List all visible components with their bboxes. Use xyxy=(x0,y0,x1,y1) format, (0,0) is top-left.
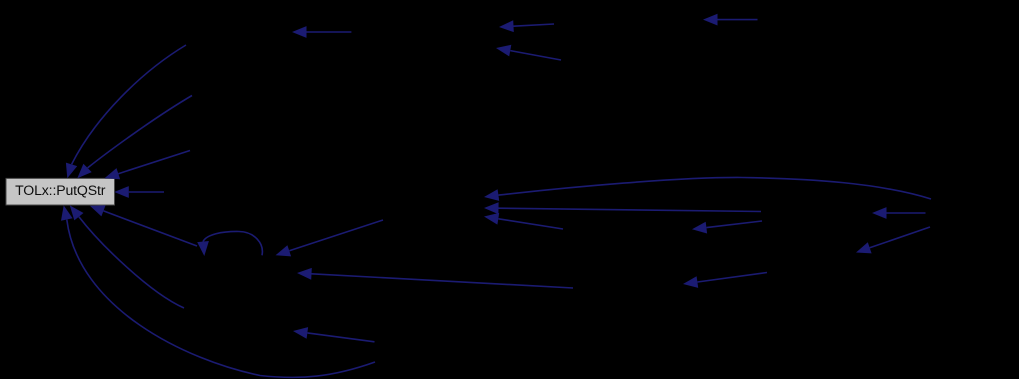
arrowhead e17 far right to node low xyxy=(856,242,872,253)
arrowhead e12 far right node arc to mid node xyxy=(484,189,499,201)
arrowhead e13 node to mid node xyxy=(484,202,499,214)
arrowhead e20 top arrow second xyxy=(499,20,514,32)
arrowhead e7 far node grand sweep to PutQStr xyxy=(61,205,73,220)
edge e3 third node to PutQStr corner xyxy=(118,151,190,174)
edge e1 top row node to PutQStr (outer curve) xyxy=(72,45,186,164)
edge e9 node to loop node xyxy=(289,220,383,251)
edge e22 top right arrow xyxy=(718,19,758,21)
arrowhead e14 node to mid node low xyxy=(484,213,499,225)
arrowhead e8 self loop xyxy=(197,241,209,256)
edge e5 loop node to PutQStr bottom xyxy=(104,211,198,246)
edge e13 node to mid node xyxy=(499,208,762,211)
edge e11 node to lower node xyxy=(307,333,374,342)
arrowhead e1 top row node to PutQStr (outer curve) xyxy=(66,163,77,179)
edge e4 adjacent node to PutQStr right xyxy=(129,191,164,193)
node TOLx::PutQStr box xyxy=(6,178,115,205)
arrowhead e9 node to loop node xyxy=(276,245,292,256)
edge e8 self loop xyxy=(203,231,262,255)
arrowhead e5 loop node to PutQStr bottom xyxy=(90,205,106,216)
arrowhead e18 node to node low xyxy=(683,276,698,288)
arrowhead e15 node to node xyxy=(692,222,707,234)
edge e7 far node grand sweep to PutQStr xyxy=(67,220,375,378)
arrowhead e16 far right to node xyxy=(872,207,887,219)
edge e17 far right to node low xyxy=(870,227,930,248)
arrowhead e3 third node to PutQStr corner xyxy=(105,168,121,179)
svg-text:TOLx::PutQStr: TOLx::PutQStr xyxy=(15,182,106,198)
edge e19 top arrow xyxy=(307,31,352,33)
arrowhead e21 arrow second row xyxy=(496,45,511,57)
edge e12 far right node arc to mid node xyxy=(498,177,931,199)
arrowhead e6 lower node to PutQStr bottom xyxy=(70,205,84,220)
arrowhead e22 top right arrow xyxy=(703,14,718,26)
edge e14 node to mid node low xyxy=(498,219,563,229)
arrowhead e10 node to loop node right xyxy=(297,268,312,280)
edge e20 top arrow second xyxy=(514,24,555,26)
edge e6 lower node to PutQStr bottom xyxy=(79,217,184,308)
edge e16 far right to node xyxy=(887,212,926,214)
edge e15 node to node xyxy=(706,221,762,228)
arrowhead e2 second row node to PutQStr xyxy=(77,164,91,178)
edge e21 arrow second row xyxy=(510,51,561,60)
arrowhead e11 node to lower node xyxy=(293,327,308,339)
arrowhead e19 top arrow xyxy=(292,26,307,38)
edge e18 node to node low xyxy=(697,273,767,283)
edge e2 second row node to PutQStr xyxy=(88,96,192,168)
arrowhead e4 adjacent node to PutQStr right xyxy=(114,186,129,198)
edge e10 node to loop node right xyxy=(312,274,574,288)
